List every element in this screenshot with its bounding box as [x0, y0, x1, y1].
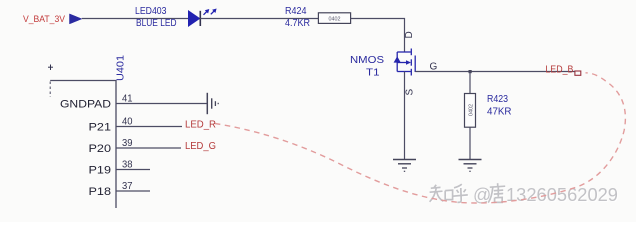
svg-text:38: 38 [122, 159, 133, 170]
svg-text:47KR: 47KR [487, 106, 512, 117]
svg-text:U401: U401 [116, 55, 127, 81]
IC U401 outline [50, 81, 116, 209]
ground at GNDPAD (rotated right) [207, 93, 218, 114]
gate wire to LED_B [415, 71, 575, 73]
svg-text:P19: P19 [89, 164, 112, 176]
wire LED cathode to R424 [200, 18, 318, 20]
wire V_BAT_3V to LED anode [82, 18, 189, 20]
svg-text:LED_G: LED_G [185, 141, 216, 152]
svg-text:13260562029: 13260562029 [506, 185, 618, 205]
svg-text:GNDPAD: GNDPAD [60, 98, 111, 110]
svg-text:0402: 0402 [329, 16, 341, 22]
watermark 知乎 @唐13260562029 [430, 183, 619, 206]
svg-text:39: 39 [122, 138, 133, 149]
svg-text:R423: R423 [487, 94, 508, 105]
svg-text:T1: T1 [366, 68, 380, 79]
svg-text:LED403: LED403 [135, 6, 167, 17]
ground under R423 [459, 160, 482, 172]
svg-text:4.7KR: 4.7KR [285, 18, 310, 29]
resistor R424 [285, 6, 351, 29]
power symbol V_BAT_3V [23, 14, 82, 25]
junction node at gate/R423 [469, 70, 472, 73]
net label LED_B with port [545, 65, 580, 76]
resistor R423 [465, 94, 512, 128]
U401 pin 40 P21 [89, 116, 183, 133]
wire R423 to ground [469, 127, 471, 159]
wire R424 to drain (corner) [351, 19, 405, 53]
wire junction to R423 [469, 72, 471, 94]
transistor T1 NMOS [350, 49, 415, 79]
svg-text:R424: R424 [285, 6, 307, 17]
svg-text:41: 41 [122, 93, 133, 104]
svg-text:BLUE LED: BLUE LED [136, 18, 177, 29]
svg-text:@: @ [473, 185, 491, 205]
svg-text:0402: 0402 [469, 104, 475, 116]
svg-text:40: 40 [122, 116, 133, 127]
svg-text:D: D [404, 31, 415, 38]
svg-text:NMOS: NMOS [350, 55, 384, 66]
U401 pin 38 P19 [89, 159, 151, 176]
U401 pin 39 P20 [89, 138, 182, 155]
svg-text:LED_R: LED_R [185, 119, 216, 130]
star marker above U401 [48, 65, 53, 71]
svg-text:S: S [405, 89, 416, 96]
source wire to ground [404, 72, 406, 160]
svg-text:V_BAT_3V: V_BAT_3V [23, 14, 66, 25]
U401 pin 37 P18 [89, 181, 151, 198]
U401 pin 41 GNDPAD [60, 93, 207, 110]
svg-text:G: G [430, 62, 438, 73]
svg-text:P18: P18 [89, 186, 112, 198]
ground under T1 source [393, 160, 416, 172]
LED LED403 [135, 6, 217, 29]
svg-text:LED_B: LED_B [545, 65, 573, 76]
svg-text:37: 37 [122, 181, 133, 192]
annotation dashed loop [215, 73, 625, 203]
svg-text:P21: P21 [89, 121, 112, 133]
svg-text:P20: P20 [89, 143, 112, 155]
